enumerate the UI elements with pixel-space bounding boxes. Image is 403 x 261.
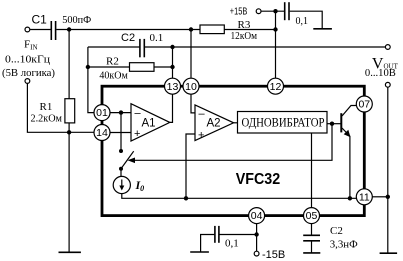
svg-text:FIN: FIN: [24, 39, 38, 52]
ground bottom right: [380, 252, 398, 254]
svg-text:+: +: [134, 128, 140, 140]
svg-text:VFC32: VFC32: [236, 171, 281, 188]
svg-text:C2: C2: [121, 32, 135, 44]
svg-text:10: 10: [185, 81, 197, 93]
terminal input Fin top: [25, 27, 30, 32]
svg-text:I0: I0: [135, 178, 145, 193]
wire Vout return to ground: [387, 87, 389, 253]
wire pin05 vertical inside: [311, 133, 313, 208]
wire R1 vertical from top line: [68, 30, 70, 99]
one-shot box: [238, 112, 328, 134]
op-amp A2: [195, 105, 234, 141]
svg-text:11: 11: [359, 191, 370, 203]
ground bottom middle: [190, 251, 209, 253]
wire pin01 to A1 inverting input: [110, 112, 131, 114]
wire I0 output line: [122, 194, 356, 199]
wire R1 to ground: [68, 123, 70, 252]
node junction pin10 line: [189, 27, 193, 31]
wire pin12 vertical: [275, 11, 277, 78]
svg-text:R1: R1: [40, 101, 53, 113]
switch blade: [121, 151, 134, 169]
svg-text:0,1: 0,1: [296, 16, 309, 27]
svg-text:40кОм: 40кОм: [99, 70, 128, 82]
current source I0: [113, 176, 130, 193]
wire pin05 down: [311, 224, 313, 236]
resistor R2: [130, 63, 155, 72]
svg-text:07: 07: [358, 99, 370, 111]
wire: [224, 29, 275, 31]
node junction base/control: [330, 122, 334, 126]
wire pin01 feedback vertical: [88, 47, 94, 113]
svg-text:0...10В: 0...10В: [365, 68, 396, 79]
svg-text:–: –: [135, 108, 142, 120]
pin 07: [356, 96, 372, 112]
pin 12: [268, 78, 284, 94]
pin 05: [304, 208, 320, 224]
node junction R2 right: [170, 65, 174, 69]
op-amp A1: [131, 104, 170, 141]
capacitor C2 3,3nF: [303, 235, 320, 241]
svg-text:13: 13: [167, 81, 179, 93]
wire R2 left: [88, 66, 130, 68]
wire Vout line right: [145, 46, 385, 48]
wire cap to pin04 node: [220, 234, 257, 236]
svg-text:A2: A2: [207, 118, 221, 130]
capacitor 0,1 top right: [285, 2, 289, 20]
node junction 0,1 cap: [254, 232, 258, 236]
transistor Q base bar: [340, 113, 342, 132]
svg-text:-15В: -15В: [262, 249, 285, 261]
svg-text:3,3нФ: 3,3нФ: [330, 239, 358, 251]
pin 10: [183, 78, 199, 94]
wire pin10 vertical above box: [190, 30, 192, 79]
wire pin14 to A1 noninverting input: [110, 132, 131, 134]
arrowhead control: [128, 158, 136, 164]
svg-text:C2: C2: [330, 225, 343, 237]
capacitor 0,1 bottom: [215, 226, 219, 243]
node junction R3/+15V: [273, 27, 277, 31]
terminal -15V: [254, 251, 259, 256]
resistor R1: [65, 99, 75, 123]
pin 11: [356, 189, 372, 205]
node junction A2+ branch: [184, 196, 188, 200]
wire top line: [56, 29, 200, 31]
svg-text:0...10кГц: 0...10кГц: [5, 55, 50, 66]
pin 13: [165, 78, 181, 94]
ground bottom left: [59, 251, 81, 253]
wire switch to current source: [120, 169, 122, 177]
pin 01: [94, 105, 110, 121]
svg-text:500пФ: 500пФ: [62, 14, 91, 26]
arrowhead emitter: [344, 130, 351, 137]
capacitor C1: [51, 21, 55, 40]
transistor collector: [342, 106, 356, 117]
wire A2 out to one-shot: [234, 122, 238, 124]
capacitor C2 0.1: [140, 39, 144, 57]
node junction emitter: [348, 196, 352, 200]
terminal Vout top: [385, 45, 390, 50]
terminal Vout bottom: [385, 82, 390, 87]
svg-text:12кОм: 12кОм: [231, 30, 258, 42]
wire pin13 to A1 output: [170, 94, 173, 122]
node junction R1 bottom: [67, 130, 71, 134]
terminal input Fin bottom: [25, 79, 30, 84]
svg-text:0,1: 0,1: [225, 238, 239, 250]
wire pin11 stub: [372, 196, 388, 198]
svg-text:–: –: [199, 108, 206, 120]
terminal +15V: [256, 9, 261, 14]
wire: [30, 29, 51, 31]
wire one-shot output to base: [327, 123, 341, 125]
pin 04: [249, 208, 265, 224]
svg-text:14: 14: [96, 127, 108, 139]
ground below C2: [303, 252, 320, 254]
node switch top: [119, 149, 123, 153]
wire switch vertical: [120, 113, 122, 151]
wire R2 right: [154, 66, 173, 68]
resistor R3: [200, 25, 224, 34]
wire +15V: [261, 10, 284, 12]
wire switch control: [131, 124, 333, 161]
node junction pin13/Vout: [170, 45, 174, 49]
wire pin13 vertical above box: [172, 47, 174, 78]
svg-text:ОДНОВИБРАТОР: ОДНОВИБРАТОР: [242, 115, 325, 129]
node junction pin11/ground line: [386, 195, 390, 199]
wire pin04 to -15V: [256, 224, 258, 252]
svg-text:A1: A1: [142, 117, 156, 129]
svg-text:(5В логика): (5В логика): [2, 68, 56, 79]
node switch bottom: [119, 167, 123, 171]
pin 14: [94, 125, 110, 141]
transistor emitter: [342, 128, 350, 198]
svg-text:12: 12: [270, 81, 282, 93]
wire C2 to ground: [311, 241, 313, 253]
wire A2+ branch: [186, 134, 195, 198]
wire pin10 to A2 inverting input: [191, 94, 195, 113]
wire: [290, 11, 323, 29]
wire to pin 14: [27, 83, 94, 132]
node junction C1/R1: [67, 27, 71, 31]
node junction +15V: [273, 9, 277, 13]
svg-text:2.2кОм: 2.2кОм: [31, 113, 63, 125]
node junction switch branch: [119, 110, 123, 114]
svg-text:0.1: 0.1: [150, 32, 164, 44]
current source arrow: [121, 180, 123, 189]
IC VFC32 box: [102, 86, 364, 215]
wire cap to ground: [201, 235, 215, 253]
svg-text:R2: R2: [106, 56, 119, 68]
ground top right: [313, 28, 332, 30]
svg-text:04: 04: [251, 210, 263, 222]
node junction R2 left: [86, 65, 90, 69]
svg-text:01: 01: [96, 107, 108, 119]
svg-text:+15В: +15В: [230, 6, 248, 18]
svg-text:C1: C1: [32, 13, 48, 27]
svg-text:+: +: [198, 129, 204, 141]
svg-text:05: 05: [306, 210, 318, 222]
wire Vout line: [88, 46, 140, 48]
